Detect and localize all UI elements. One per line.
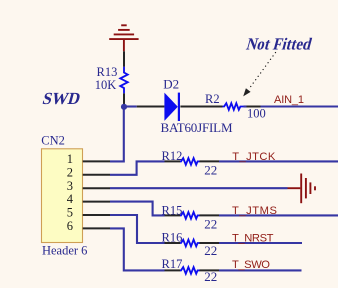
wire: pin 6 to R17 — [110, 228, 165, 270]
svg-text:10K: 10K — [95, 78, 117, 92]
wire: pin 3 to earth ground — [110, 187, 288, 189]
pin 6 — [67, 219, 110, 233]
svg-text:T_SWO: T_SWO — [232, 259, 270, 271]
earth ground (right, on pin 3 net) — [288, 174, 316, 204]
resistor R15 — [165, 212, 220, 219]
resistor R12 — [165, 158, 220, 165]
wire: pin 2 to R12 — [110, 161, 165, 174]
svg-text:5: 5 — [67, 206, 73, 220]
wire: R12 to right edge — [219, 160, 338, 162]
svg-text:6: 6 — [67, 219, 73, 233]
resistor R2 — [223, 103, 261, 110]
svg-text:2: 2 — [67, 165, 73, 179]
diode D2 — [137, 93, 223, 121]
svg-text:D2: D2 — [163, 77, 179, 92]
pin 5 — [67, 206, 110, 220]
svg-text:Header 6: Header 6 — [42, 244, 87, 258]
svg-text:R12: R12 — [162, 149, 183, 163]
wire: R17 to T_SWO end — [219, 269, 302, 271]
connector CN2 — [42, 149, 83, 243]
resistor R16 — [165, 240, 220, 247]
svg-text:22: 22 — [204, 162, 217, 177]
pin 3 — [67, 179, 110, 193]
svg-text:T_JTCK: T_JTCK — [232, 151, 276, 163]
svg-text:R2: R2 — [205, 92, 220, 106]
svg-text:R15: R15 — [162, 203, 183, 217]
junction dot — [121, 104, 127, 110]
pin 1 — [67, 152, 110, 166]
svg-text:R17: R17 — [162, 257, 183, 271]
svg-text:SWD: SWD — [41, 89, 83, 108]
wire: pin 5 to R16 — [110, 215, 165, 243]
wire: R15 to right edge — [219, 214, 338, 216]
svg-text:100: 100 — [247, 107, 266, 121]
svg-text:T_JTMS: T_JTMS — [232, 205, 277, 217]
svg-text:T_NRST: T_NRST — [232, 232, 274, 244]
svg-text:AIN_1: AIN_1 — [274, 94, 304, 106]
wire: pin 1 up to junction — [110, 107, 124, 162]
pin 4 — [67, 192, 110, 206]
wire: junction to diode D2 — [124, 105, 137, 107]
arrow (not fitted pointer to R2) — [243, 53, 275, 97]
svg-text:22: 22 — [204, 243, 217, 258]
svg-text:4: 4 — [67, 192, 74, 206]
resistor R17 — [165, 267, 220, 274]
resistor R13 — [120, 51, 127, 104]
svg-text:22: 22 — [204, 216, 217, 231]
svg-text:CN2: CN2 — [41, 134, 65, 148]
svg-text:R16: R16 — [162, 230, 183, 244]
pin 2 — [67, 165, 110, 179]
wire: R2 to AIN_1 (right edge) — [261, 105, 338, 107]
earth ground (top, above R13) — [109, 25, 138, 51]
svg-text:1: 1 — [67, 152, 73, 166]
svg-text:3: 3 — [67, 179, 73, 193]
svg-text:22: 22 — [204, 269, 217, 284]
svg-text:BAT60JFILM: BAT60JFILM — [161, 120, 233, 135]
svg-text:Not Fitted: Not Fitted — [244, 35, 314, 54]
wire: pin 4 to R15 — [110, 202, 165, 216]
wire: R16 to T_NRST end — [219, 242, 302, 244]
svg-text:R13: R13 — [97, 65, 118, 79]
